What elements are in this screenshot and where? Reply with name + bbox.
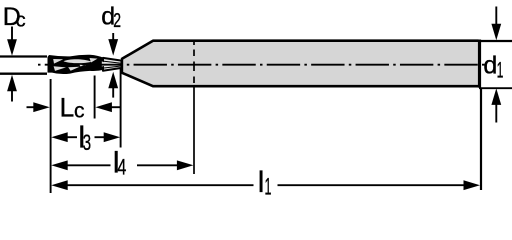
svg-text:d: d <box>483 52 497 80</box>
svg-text:L: L <box>60 93 75 123</box>
svg-text:3: 3 <box>83 130 92 155</box>
svg-text:l: l <box>258 166 265 199</box>
svg-text:1: 1 <box>265 174 272 201</box>
svg-text:c: c <box>74 100 85 123</box>
svg-text:c: c <box>16 10 26 32</box>
svg-text:1: 1 <box>497 58 504 83</box>
svg-text:4: 4 <box>117 155 126 180</box>
svg-text:2: 2 <box>113 10 121 32</box>
